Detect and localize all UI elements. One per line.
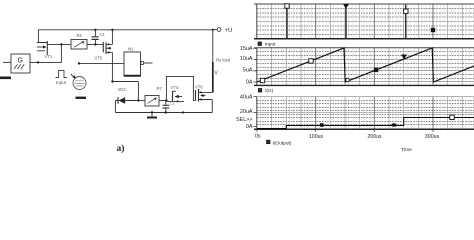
svg-text:5uA: 5uA [243,68,253,74]
plot 1 major gridlines [316,4,433,39]
svg-text:C4: C4 [170,102,175,106]
svg-text:200us: 200us [367,134,382,140]
wire R7 to node [159,100,166,102]
trace I(Output) [257,118,474,129]
probe arrow [71,74,74,77]
transistor VT6 [193,89,212,102]
diode VD2 [115,97,138,104]
trace sawtooth I(G) [257,48,474,82]
marker filled square step1 [320,123,324,127]
wire N1 output [144,62,153,64]
marker ellipse step1 [391,123,396,126]
pulse input symbol [56,71,68,78]
marker square ramp1 mid [309,59,313,63]
plot 3 y ticks [254,97,257,127]
node dot R7-C4 [165,99,167,101]
ground bar bottom-left [0,77,11,80]
node dot input wire [78,62,80,64]
potentiometer R2 [71,40,87,50]
legend Input [258,42,262,46]
plot 1 Input grid [257,4,474,39]
marker square pulse3 [404,9,408,13]
probe circle symbol [73,77,86,90]
terminal +U [212,29,214,31]
svg-text:R2: R2 [77,33,83,38]
marker square step2 [450,115,454,119]
plot 2 border [257,48,474,86]
capacitor C1 [92,30,99,45]
plot 3 I(Output) grid [257,97,474,130]
svg-text:20uA: 20uA [240,109,253,115]
plot 3 border [257,96,474,98]
capacitor C4 [163,101,170,113]
svg-text:SEL>>: SEL>> [236,117,253,123]
svg-text:0A: 0A [246,80,253,86]
wire pot to gate [87,43,103,45]
svg-text:10uA: 10uA [240,56,253,62]
node dot rail-ground stub [151,111,153,113]
svg-text:Time: Time [401,147,412,153]
generator sawtooth symbol [14,64,24,69]
node dot rail-C1 [94,29,96,31]
wire to potentiometer [47,43,71,45]
ground [151,113,153,117]
marker square ramp1 start [260,78,264,82]
load line V [212,30,214,62]
plot 2 I(G) grid [257,48,474,86]
svg-text:I(G): I(G) [265,88,274,94]
plot 3 major gridlines [316,97,433,130]
wire source node right [112,81,138,83]
svg-text:Input: Input [265,42,276,48]
svg-text:0A: 0A [246,124,253,130]
marker filled square ramp2 [374,68,378,72]
wire input stub left [3,61,11,63]
generator G1 sawtooth source [11,54,30,73]
node dot C4-rail [165,111,167,113]
svg-text:VT5: VT5 [95,56,103,61]
svg-text:300us: 300us [425,134,440,140]
trace input pulses [287,5,406,39]
wire gate bracket [166,76,193,100]
wire generator output [30,61,62,63]
transistor VT5 [103,42,112,54]
svg-text:40uA: 40uA [240,95,253,101]
marker triangle pulse2 [343,4,349,9]
wire riser to upper net [60,44,62,62]
wire VT5 drain to rail [111,30,113,45]
svg-text:R7: R7 [157,86,163,91]
node dot A [60,43,62,45]
node dot VT4-rail [182,111,184,113]
comparator N1 [124,52,141,76]
transistor VT4 [166,91,184,102]
wire input to N1 [79,62,124,64]
svg-text:+U: +U [225,28,233,34]
plot 2 major gridlines [316,48,433,86]
svg-text:100us: 100us [309,134,324,140]
svg-text:G: G [18,58,23,65]
node dot rail-drain [111,29,113,31]
marker circle ramp2 start [346,78,350,82]
node dot VT5 source [111,80,113,82]
svg-text:Rs load: Rs load [216,58,231,63]
marker triangle ramp2 [401,55,407,60]
svg-text:VT1: VT1 [45,54,53,59]
ground bar below probe [76,97,87,99]
svg-text:I(Output): I(Output) [273,140,292,146]
plot 1 border [257,4,474,39]
wire down-left corner to rail [114,101,116,113]
wire to R7 [138,100,145,102]
node dot diode junction [137,99,139,101]
marker filled square on gridline [431,28,435,32]
wire bottom rail [115,112,212,114]
N1 output bubble [141,61,144,64]
wire VT5 source down [111,52,113,81]
svg-text:N1: N1 [128,47,134,52]
legend I(Output) [267,140,271,144]
wire stub below rail start [37,30,39,43]
svg-text:VT6: VT6 [195,85,203,90]
svg-text:0s: 0s [255,133,261,139]
node dot on generator output [37,61,39,63]
plot 2 y ticks [254,48,257,82]
wire VT6 source down [211,100,213,113]
svg-text:Input: Input [56,80,67,85]
node dot C1-gate wire [94,43,96,45]
wire drop to diode net [137,82,139,102]
svg-text:15uA: 15uA [240,46,253,52]
wire top rail [38,29,213,31]
transistor VT1 [37,41,48,55]
svg-text:VD2: VD2 [118,87,127,92]
svg-text:C1: C1 [100,32,106,37]
x axis ticks [257,129,433,132]
svg-text:a): a) [117,143,125,154]
svg-text:VT4: VT4 [171,85,179,90]
marker square pulse1 [285,4,289,8]
legend I(G) [258,89,262,93]
potentiometer R7 [145,96,159,107]
